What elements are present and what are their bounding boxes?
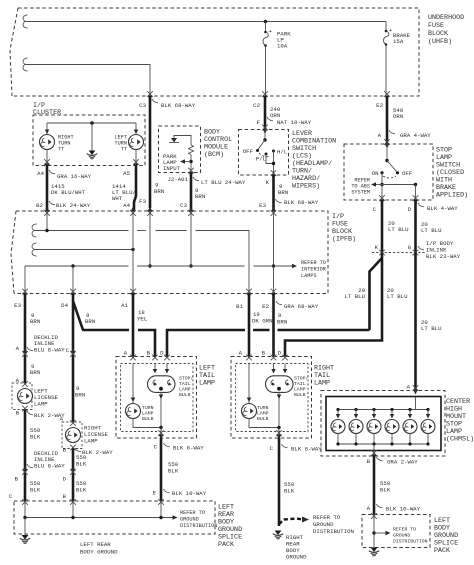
bcm driver symbol: [169, 136, 191, 146]
chmsl outer box: [321, 391, 445, 457]
svg-text:E3: E3: [259, 202, 266, 209]
deck lid inline row 1: [16, 334, 76, 357]
svg-text:REFER TO: REFER TO: [301, 260, 326, 266]
arrow park lamp input: [182, 161, 191, 163]
svg-text:D: D: [278, 350, 282, 357]
svg-text:BLK 4-WAY: BLK 4-WAY: [427, 205, 458, 212]
svg-text:OFF: OFF: [243, 148, 254, 155]
svg-text:GRA 2-WAY: GRA 2-WAY: [387, 459, 418, 466]
chmsl bottom bus: [338, 443, 428, 445]
wire cluster A5 to IPFB A4 (1414 LT BLU/WHT): [134, 166, 136, 212]
fuse PARK LP 10A: [263, 22, 291, 50]
svg-text:K: K: [375, 244, 379, 251]
svg-text:B1: B1: [236, 303, 243, 310]
wire stop switch D down 20 LT BLU: [414, 200, 417, 253]
svg-text:B: B: [16, 410, 20, 417]
svg-text:B: B: [147, 350, 151, 357]
wire C2 down 240 ORN: [264, 96, 267, 130]
lamp RIGHT TURN TT: [46, 123, 48, 134]
svg-text:A5: A5: [123, 170, 130, 177]
deck lid inline row 2: [9, 450, 87, 500]
svg-text:D: D: [63, 476, 67, 483]
node abs tap: [381, 173, 383, 185]
svg-text:STOP/: STOP/: [294, 376, 309, 382]
turn lamp bulb (left): [126, 364, 154, 423]
cluster exits: [46, 150, 48, 166]
svg-text:ON: ON: [372, 170, 379, 177]
svg-text:(UHFB): (UHFB): [428, 38, 452, 46]
svg-text:C: C: [66, 347, 70, 354]
svg-text:F: F: [257, 119, 261, 126]
wire 20 LT BLU run to left tail D (hops at 248 and 272): [167, 330, 370, 357]
svg-text:(BCM): (BCM): [204, 151, 224, 159]
headlamp switch: [243, 130, 288, 176]
svg-text:APPLIED): APPLIED): [436, 192, 468, 200]
svg-text:SYSTEM: SYSTEM: [351, 190, 370, 196]
svg-text:BLU 8-WAY: BLU 8-WAY: [34, 463, 65, 470]
svg-text:OFF: OFF: [402, 170, 413, 177]
svg-text:TT: TT: [58, 147, 64, 153]
svg-text:BLK 23-WAY: BLK 23-WAY: [426, 253, 461, 260]
svg-text:B: B: [367, 458, 371, 465]
ipfb box: [11, 211, 328, 294]
svg-text:+: +: [269, 28, 273, 35]
svg-text:LT BLU: LT BLU: [388, 226, 409, 233]
fuse BRAKE 15A: [384, 22, 411, 46]
svg-text:E: E: [153, 490, 157, 497]
svg-text:J2-A01: J2-A01: [168, 176, 189, 183]
wire D4 branch diagonal 9 BRN: [73, 301, 83, 330]
svg-text:ORN: ORN: [393, 113, 403, 120]
svg-text:E2: E2: [376, 102, 383, 109]
underhood fuse block box: [10, 8, 419, 96]
svg-text:BODY GROUND: BODY GROUND: [80, 549, 118, 556]
svg-text:E2: E2: [262, 303, 269, 310]
wire right license 550 BLK: [72, 449, 75, 502]
svg-text:F3: F3: [139, 198, 146, 205]
wire K branch: down, corner to right tail D: [285, 253, 382, 357]
arrow refer to ground distribution: [173, 515, 178, 519]
svg-text:C3: C3: [139, 102, 146, 109]
svg-text:BLOCK: BLOCK: [428, 30, 448, 38]
svg-text:B: B: [63, 447, 67, 454]
svg-text:BRN: BRN: [277, 319, 287, 326]
svg-text:INTERIOR: INTERIOR: [301, 267, 326, 273]
svg-text:C: C: [154, 444, 158, 451]
svg-text:GROUND: GROUND: [180, 517, 199, 523]
svg-text:15A: 15A: [393, 38, 404, 45]
svg-text:BRN: BRN: [195, 193, 205, 200]
svg-text:C: C: [9, 493, 13, 500]
arrow refer to ground distribution: [374, 532, 387, 534]
label UHFB: [428, 14, 464, 46]
svg-text:YEL: YEL: [137, 316, 148, 323]
wire LCS K to IPFB E3 (9 BRN): [272, 175, 275, 211]
svg-text:LAMP: LAMP: [142, 411, 154, 417]
svg-text:C3: C3: [180, 202, 187, 209]
splice pack box: [362, 515, 430, 548]
svg-text:BLU 8-WAY: BLU 8-WAY: [34, 347, 65, 354]
svg-text:DISTRIBUTION: DISTRIBUTION: [180, 523, 217, 529]
wire chmsl 550 BLK: [373, 456, 376, 515]
chmsl bulbs: [331, 408, 435, 444]
svg-text:A: A: [378, 132, 382, 139]
svg-text:TT: TT: [121, 147, 127, 153]
svg-text:GRA 68-WAY: GRA 68-WAY: [284, 303, 319, 310]
svg-text:REFER TO: REFER TO: [393, 527, 416, 533]
svg-text:PACK: PACK: [218, 541, 234, 549]
ipfb bottom connectors: [22, 289, 28, 298]
dashed arrow to ground distribution (right rear): [279, 519, 303, 525]
lcs box: [239, 130, 289, 176]
svg-text:WHT: WHT: [112, 195, 123, 202]
svg-text:(IPFB): (IPFB): [332, 236, 356, 244]
wire K branch diagonal to left run: [370, 258, 383, 330]
left tail lamp inner box: [121, 364, 194, 432]
svg-text:DISTRIBUTION: DISTRIBUTION: [313, 528, 354, 535]
wire 9 BRN run to left tail B (hop at 133): [82, 330, 155, 357]
svg-text:C: C: [270, 445, 274, 452]
svg-text:REFER TO: REFER TO: [180, 510, 205, 516]
svg-text:BULB: BULB: [257, 416, 269, 422]
svg-text:BULB: BULB: [142, 416, 154, 422]
net2 to A-wire: [34, 249, 133, 251]
svg-text:GROUND: GROUND: [393, 533, 410, 539]
svg-text:LT BLU 24-WAY: LT BLU 24-WAY: [201, 179, 246, 186]
right tail ground merge: [278, 393, 280, 428]
left tail ground merge: [160, 393, 162, 428]
inline connector I/P BODY INLINE BLK 23-WAY: [372, 240, 461, 260]
svg-text:BULB: BULB: [179, 392, 191, 398]
arrow refer to interior lamps: [292, 264, 297, 268]
svg-text:BLK 10-WAY: BLK 10-WAY: [172, 490, 207, 497]
svg-text:A: A: [124, 350, 128, 357]
svg-text:10A: 10A: [277, 43, 288, 50]
svg-text:A: A: [407, 384, 411, 391]
svg-text:LT BLU: LT BLU: [421, 325, 442, 332]
svg-text:GRA 4-WAY: GRA 4-WAY: [400, 132, 431, 139]
ground left rear body ground: [24, 518, 26, 536]
arrow refer to abs: [373, 184, 382, 186]
wire A1 18 YEL to left tail A: [132, 294, 135, 357]
svg-text:GROUND: GROUND: [313, 521, 334, 528]
chmsl feed: [415, 397, 417, 410]
svg-text:BULB: BULB: [294, 392, 306, 398]
splice pack box: [14, 501, 215, 534]
ground right rear body ground: [273, 531, 283, 539]
stop/tail lamp bulb (left): [148, 364, 194, 399]
wire E2 9 BRN to right tail B: [272, 294, 275, 357]
svg-text:BLK 68-WAY: BLK 68-WAY: [284, 199, 319, 206]
svg-text:A4: A4: [123, 202, 130, 209]
net1 fuse feed (hops at 133,150,191): [34, 231, 249, 294]
right tail lamp inner box: [236, 364, 309, 432]
svg-text:D: D: [160, 350, 164, 357]
svg-text:D: D: [408, 206, 412, 213]
node B2 stub: [46, 211, 48, 231]
svg-text:BRN: BRN: [85, 318, 95, 325]
svg-text:LAMP: LAMP: [294, 387, 306, 393]
stop lamp switch box: [344, 144, 433, 200]
continuation curl feed 2: [23, 58, 28, 71]
svg-text:BRN: BRN: [154, 188, 164, 195]
wire F3 drop: [149, 211, 151, 266]
wire E3-E2 through: [273, 211, 275, 294]
wire C3 down (9 BRN / BLK 68-WAY): [149, 96, 152, 208]
wire G down to CHMSL 20 LT BLU: [414, 253, 417, 391]
stop/tail lamp bulb (right): [266, 364, 309, 399]
svg-text:A: A: [16, 345, 20, 352]
svg-text:BRN: BRN: [75, 392, 85, 399]
wire to D contact: [382, 184, 416, 186]
svg-text:BLK: BLK: [76, 487, 87, 494]
wire left license 550 BLK: [24, 410, 27, 502]
wire cluster A4 to IPFB B2 (1415 DK BLU/WHT): [46, 166, 49, 212]
wire park fuse to C2: [265, 46, 267, 97]
svg-text:FUSE: FUSE: [428, 22, 444, 30]
right license lamp: [62, 420, 108, 450]
svg-text:CLUSTER: CLUSTER: [33, 109, 61, 117]
bcm box: [159, 126, 201, 173]
svg-text:BRN: BRN: [30, 369, 40, 376]
wire left tail C 550 BLK: [160, 438, 163, 501]
svg-text:GRA 16-WAY: GRA 16-WAY: [57, 173, 92, 180]
svg-text:BLK 68-WAY: BLK 68-WAY: [161, 102, 196, 109]
svg-text:K: K: [266, 179, 270, 186]
svg-text:A: A: [60, 416, 64, 423]
left tail lamp outer box: [116, 357, 197, 439]
svg-text:LT BLU: LT BLU: [387, 293, 408, 300]
svg-text:A4: A4: [37, 170, 44, 177]
wire A4-A1 through: [132, 211, 134, 294]
svg-text:TAIL: TAIL: [179, 381, 191, 387]
svg-text:LT BLU: LT BLU: [421, 227, 442, 234]
svg-text:BLK 6-WAY: BLK 6-WAY: [173, 445, 204, 452]
svg-text:LEFT REAR: LEFT REAR: [80, 541, 111, 548]
turn lamp bulb (right): [242, 364, 269, 423]
wire E3 9 BRN to left license: [24, 294, 27, 384]
node park lamp input: [189, 160, 192, 163]
svg-text:WIPERS): WIPERS): [292, 183, 320, 191]
svg-text:LAMP: LAMP: [199, 380, 215, 388]
brake switch: [372, 144, 413, 178]
net3 park bus (hops at 133 and 249): [25, 265, 294, 267]
svg-text:TURN: TURN: [142, 405, 154, 411]
svg-text:BLK: BLK: [76, 461, 87, 468]
wire E2 down 540 ORN: [386, 96, 389, 144]
cluster ground: [91, 123, 93, 151]
svg-text:BRN: BRN: [30, 318, 40, 325]
cluster internal bus: [47, 122, 136, 124]
svg-text:BLK 6-WAY: BLK 6-WAY: [291, 446, 322, 453]
ground left body ground: [373, 546, 375, 548]
svg-text:(CHMSL): (CHMSL): [446, 436, 474, 444]
svg-text:BLK: BLK: [30, 434, 41, 441]
svg-text:E3: E3: [14, 302, 21, 309]
svg-text:BLK: BLK: [30, 487, 41, 494]
svg-text:DISTRIBUTION: DISTRIBUTION: [393, 539, 428, 545]
svg-text:LAMP: LAMP: [257, 411, 269, 417]
node ground tap: [90, 121, 94, 125]
wire BCM J2-A01 to IPFB C3 (9 BRN): [190, 173, 193, 212]
svg-text:BRN: BRN: [278, 189, 288, 196]
svg-text:LAMPS: LAMPS: [301, 273, 317, 279]
continuation curl net1: [32, 224, 37, 237]
svg-text:TAIL: TAIL: [294, 381, 306, 387]
lamp LEFT TURN TT: [135, 123, 137, 134]
connector exits on UHFB: [147, 91, 153, 100]
svg-text:REFER TO: REFER TO: [313, 514, 341, 521]
svg-text:BLK: BLK: [284, 488, 295, 495]
svg-text:B: B: [63, 493, 67, 500]
svg-text:D4: D4: [61, 302, 68, 309]
svg-text:P/L: P/L: [256, 156, 267, 163]
svg-text:LT BLU: LT BLU: [345, 293, 366, 300]
wire right tail C 550 BLK: [278, 438, 281, 526]
continuation curl feed 1: [23, 15, 28, 28]
chmsl inner housing: [326, 397, 441, 451]
wire B1 19 DK GRN to right tail A: [248, 294, 251, 357]
svg-text:TURN: TURN: [257, 405, 269, 411]
svg-text:LAMP: LAMP: [314, 380, 330, 388]
svg-text:BLK: BLK: [380, 487, 391, 494]
svg-text:H/L: H/L: [277, 149, 288, 156]
svg-text:GROUND: GROUND: [286, 554, 307, 561]
wire bus to fuses: [25, 21, 386, 23]
resistor (bcm internal): [189, 145, 194, 155]
i/p cluster box: [33, 115, 145, 166]
node park fuse tap: [264, 20, 268, 24]
svg-text:BLK: BLK: [168, 468, 179, 475]
svg-text:B: B: [15, 476, 19, 483]
wire to C3: [25, 65, 150, 97]
left license lamp: [12, 381, 58, 411]
svg-text:UNDERHOOD: UNDERHOOD: [428, 14, 464, 22]
ipfb top connectors: [44, 207, 50, 216]
svg-text:ORN: ORN: [270, 112, 280, 119]
svg-text:BLK 10-WAY: BLK 10-WAY: [386, 506, 421, 513]
svg-text:LAMP: LAMP: [34, 401, 48, 408]
svg-text:A: A: [367, 505, 371, 512]
svg-text:C2: C2: [253, 102, 260, 109]
svg-text:A1: A1: [121, 302, 128, 309]
wire D4 9 BRN down: [72, 294, 75, 423]
svg-text:BLK 2-WAY: BLK 2-WAY: [82, 449, 113, 456]
wire stop switch C down 20 LT BLU: [381, 200, 384, 253]
svg-text:INPUT: INPUT: [163, 165, 181, 172]
chmsl top bus: [338, 409, 428, 411]
svg-text:NAT 10-WAY: NAT 10-WAY: [277, 119, 312, 126]
svg-text:B: B: [262, 350, 266, 357]
svg-text:STOP/: STOP/: [179, 376, 194, 382]
wire C3 drop: [190, 211, 192, 266]
svg-text:B2: B2: [36, 202, 43, 209]
right tail lamp outer box: [231, 357, 312, 439]
svg-text:C: C: [373, 206, 377, 213]
chmsl exit: [373, 444, 375, 456]
svg-text:PACK: PACK: [434, 547, 450, 555]
continuation curl net2: [32, 243, 37, 256]
svg-text:G: G: [408, 244, 412, 251]
svg-text:LAMP: LAMP: [179, 387, 191, 393]
svg-text:A: A: [239, 350, 243, 357]
splice bus: [25, 501, 161, 518]
svg-text:DK BLU/WHT: DK BLU/WHT: [51, 189, 86, 196]
svg-text:DK GRN: DK GRN: [252, 318, 272, 325]
svg-text:LAMP: LAMP: [84, 438, 98, 445]
wire brake fuse to E2: [385, 45, 387, 97]
svg-text:BLK 24-WAY: BLK 24-WAY: [56, 202, 91, 209]
